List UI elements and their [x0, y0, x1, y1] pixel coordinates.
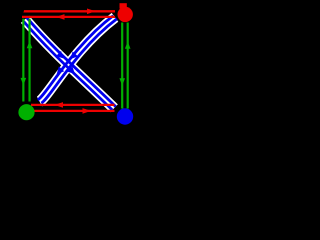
- wire: right green pair red<->blue: [122, 23, 128, 109]
- wire: top red pair black<->red: [22, 11, 115, 17]
- arrow: red arrowhead on bottom lower line pointing right: [83, 108, 92, 114]
- node: red node top-right with tab: [120, 3, 127, 9]
- wire: blue double edge leg A black->blue: [23, 18, 115, 110]
- arrow: blue arrowhead on leg B lower-left pointing down-left: [57, 66, 64, 74]
- wire: bottom red pair green<->blue: [31, 105, 115, 111]
- arrow: red arrowhead right on top upper line: [87, 9, 96, 15]
- arrow: green arrowhead up on right-right line: [125, 42, 131, 49]
- arrow: red arrowhead left on top lower line: [56, 14, 65, 20]
- arrow: blue arrowhead on leg B upper-right pointing down-left: [70, 52, 78, 60]
- node: green node bottom-left: [18, 104, 34, 120]
- node: blue node bottom-right: [117, 108, 133, 124]
- node: black node top-left (occludes line ends): [0, 0, 24, 22]
- arrow: red arrowhead on bottom upper line pointing left: [55, 102, 64, 108]
- wire: blue double edge leg B red->green: [38, 16, 117, 103]
- wire: left green pair black<->green: [23, 19, 29, 102]
- wire: white casing under blue X leg A (black node to blue node): [25, 19, 114, 108]
- arrow: green arrowhead up on right line: [27, 41, 33, 48]
- wire: white casing under blue X leg B (red node to green node): [40, 17, 116, 101]
- arrow: green arrowhead down on left line: [21, 78, 27, 85]
- arrow: blue arrowhead on leg A upper-left pointing down-right: [56, 51, 64, 59]
- arrow: green arrowhead down on right-left line: [119, 78, 125, 85]
- arrow: blue arrowhead on leg A lower-right pointing down-right: [67, 66, 75, 74]
